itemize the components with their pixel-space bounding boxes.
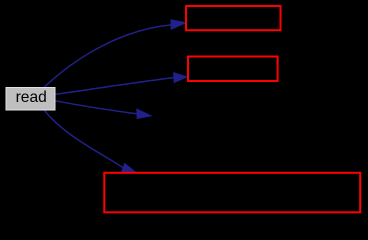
node1 box (truncated callee, top) — [186, 6, 281, 30]
edge read->node3 (wire) — [56, 101, 152, 119]
edge read->node1 (wire) — [44, 20, 187, 88]
node3 box (truncated callee, bottom large) — [104, 173, 360, 213]
edge read->node4 (wire) — [45, 110, 137, 173]
node read (current function) — [6, 88, 55, 111]
edge read->node2 (wire) — [56, 73, 188, 95]
node2 box (truncated callee, middle) — [188, 57, 278, 82]
svg-text:read: read — [16, 89, 47, 106]
